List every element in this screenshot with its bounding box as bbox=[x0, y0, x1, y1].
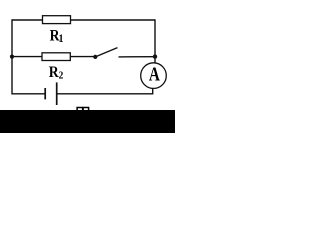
switch S1 pivot dot bbox=[93, 55, 97, 59]
wire middle left segment bbox=[12, 56, 96, 58]
wire bottom left segment bbox=[12, 93, 45, 95]
wire right vertical bbox=[154, 19, 156, 64]
wire ammeter to bottom bbox=[152, 88, 154, 95]
svg-text:A: A bbox=[149, 63, 160, 85]
resistor R1 bbox=[43, 16, 71, 24]
wire left vertical bbox=[11, 19, 13, 94]
node junction dot right bbox=[153, 54, 157, 58]
ammeter U1 circle bbox=[141, 63, 167, 89]
battery BT1 short plate bbox=[44, 88, 46, 99]
node junction dot left bbox=[10, 55, 14, 59]
black bottom bar bbox=[0, 110, 175, 133]
resistor R2 bbox=[42, 53, 70, 61]
wire middle right segment bbox=[119, 56, 156, 58]
wire bottom right segment bbox=[57, 93, 153, 95]
wire top (node B to node C) bbox=[12, 19, 155, 21]
partially hidden boxes above bar bbox=[77, 108, 83, 114]
battery BT1 long plate bbox=[56, 82, 58, 105]
switch S1 lever bbox=[95, 48, 118, 57]
